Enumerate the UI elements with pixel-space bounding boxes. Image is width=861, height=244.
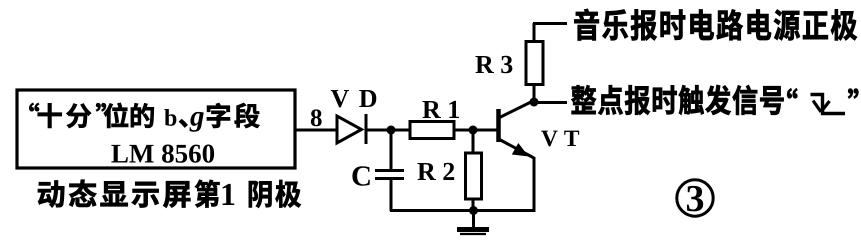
label R1 <box>422 101 458 118</box>
figure number ③ <box>677 180 713 216</box>
label: caption digit 1 <box>223 184 235 205</box>
node B: junction R1/R2/base <box>469 126 478 135</box>
label: caption 第…阴极 <box>195 180 301 208</box>
falling-edge symbol in trigger label <box>811 95 846 114</box>
pin label 8 <box>311 109 322 126</box>
node C: ground junction <box>469 206 478 215</box>
label C <box>352 166 369 185</box>
block U1: LM8560 "tens" digit b,g segment driver box <box>17 90 295 168</box>
label R3 <box>475 56 512 73</box>
label: caption 动态显示屏 <box>38 180 190 208</box>
node D: collector junction <box>530 98 539 107</box>
capacitor C <box>390 130 393 169</box>
node/net label: 音乐报时电路电源正极 (music-chime power +) <box>574 9 857 40</box>
transistor VT <box>496 109 501 142</box>
wire: diode cathode to resistor R1 <box>366 129 411 132</box>
wire: collector node to R3 <box>533 84 536 102</box>
label: box text line1 CJK “十分”位的…字段 <box>29 103 259 128</box>
resistor R2 <box>472 130 475 153</box>
wire: trigger signal output <box>534 101 567 104</box>
label VT <box>541 131 579 147</box>
resistor R1 <box>410 122 454 139</box>
node/net label: 整点报时触发信号 (hourly chime trigger) <box>571 85 783 115</box>
label VD <box>331 90 376 107</box>
label: box text b <box>164 109 176 126</box>
label: box text g <box>189 112 203 132</box>
node A: junction diode/C/R1 <box>387 126 396 135</box>
resistor R3 <box>526 42 543 85</box>
wire: box output to diode VD anode <box>295 129 338 132</box>
diode VD <box>337 116 362 143</box>
wire: R1 to base of VT <box>454 129 497 132</box>
quote marks around trigger symbol <box>787 88 858 98</box>
label: box text line2 LM 8560 <box>111 145 214 163</box>
ground <box>472 211 475 229</box>
label R2 <box>417 163 454 180</box>
wire: ground rail <box>390 209 536 212</box>
wire: R3 to power rail <box>533 22 567 25</box>
